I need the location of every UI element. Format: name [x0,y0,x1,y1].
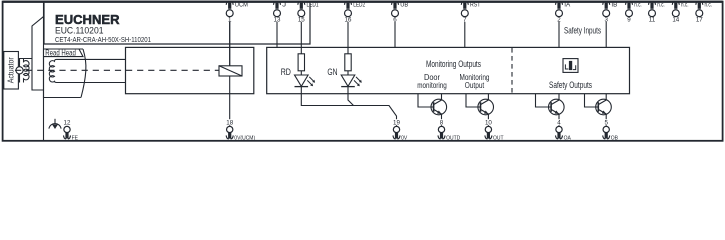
transistor Q2 monitoring output base supply wire [466,94,478,107]
pin number 4 (bottom) [554,119,564,125]
svg-text:Monitoring Outputs: Monitoring Outputs [426,59,481,70]
svg-text:17: 17 [696,16,703,23]
svg-text:n.c.: n.c. [657,2,665,9]
wire resistor to LED RD [300,71,302,75]
svg-text:4: 4 [557,120,561,127]
pin number 18 (bottom) [225,119,235,125]
transistor Q1 door monitoring output base supply wire [418,94,431,107]
logo panel [3,1,723,44]
svg-text:OA: OA [564,135,572,141]
svg-text:8: 8 [440,120,444,127]
svg-text:monitoring: monitoring [417,80,447,90]
terminal pin 11 circle [649,10,656,17]
LED GN cathode bar [341,86,355,88]
terminal pin 10 circle (bottom) [485,126,491,132]
transistor Q4 safety output B base supply wire [585,94,596,107]
svg-text:18: 18 [226,120,233,127]
svg-text:Output: Output [465,80,485,90]
svg-text:0V(UCM): 0V(UCM) [234,135,255,141]
svg-text:GN: GN [327,67,337,78]
svg-text:LED1: LED1 [307,2,319,9]
svg-text:Read Head: Read Head [45,48,76,57]
svg-text:Safety Outputs: Safety Outputs [549,80,592,91]
wire from pin 1 [229,22,231,66]
wire from pin 6 [394,22,396,48]
evaluation unit box (left) [126,47,254,93]
terminal pin 6 (UB) top plug [392,1,399,8]
svg-text:J: J [282,2,286,9]
read head coil L2 [49,59,56,82]
terminal pin 5 (OB) bottom plug [603,132,610,139]
terminal pin 10 (OUT) bottom plug [485,132,492,139]
wire pin1 to solenoid [229,22,231,66]
terminal pin 17 circle [696,10,703,17]
terminal pin 18 circle (bottom) [227,126,233,132]
actuator transponder circle [16,67,23,74]
resistor for LED GN [345,54,351,71]
terminal pin 16 circle [345,10,352,17]
terminal pin 7 (RST) top plug [461,1,468,8]
outer drawing frame [3,2,723,141]
LED GN emission arrows [354,77,362,86]
terminal pin 11 (n.c.) top plug [649,1,656,8]
terminal pin 9 (n.c.) top plug [626,1,633,8]
transistor Q4 safety output B [596,94,612,127]
terminal pin 17 (n.c.) top plug [696,1,703,8]
LED GN diode triangle [341,75,355,86]
main electronics box [267,47,630,93]
mechanical coupling dashed line [15,69,219,71]
LED RD emission arrows [307,77,315,86]
terminal pin 9 circle [626,10,633,17]
terminal pin 3 circle [603,10,610,17]
svg-text:CET4-AR-CRA-AH-50X-SH-110201: CET4-AR-CRA-AH-50X-SH-110201 [55,35,151,44]
read head label tab [44,49,84,57]
wire from pin 15 [300,22,302,54]
wire: jog from FE rail to actuator loop [32,17,44,59]
read head cable wires to evaluation unit [57,58,126,60]
terminal pin 16 (LED2) top plug [345,1,352,8]
svg-text:11: 11 [649,16,656,23]
guard lock solenoid Y1 [219,66,242,76]
terminal pin 1 (UCM) top plug [226,1,233,8]
LED cathode rail to pin 19 [301,87,396,127]
svg-text:IA: IA [564,2,570,9]
svg-text:9: 9 [627,16,631,23]
svg-text:Safety Inputs: Safety Inputs [564,25,601,36]
pin number 8 (bottom) [437,119,447,125]
svg-text:n.c.: n.c. [705,2,713,9]
svg-text:10: 10 [485,120,492,127]
pin number 10 (bottom) [483,119,493,125]
svg-text:n.c.: n.c. [634,2,642,9]
pin number 5 (bottom) [601,119,611,125]
wire from pin 2 [558,22,560,48]
terminal pin 2 circle [556,10,563,17]
wire from pin 16 [347,22,349,54]
svg-text:12: 12 [64,120,71,127]
svg-text:IB: IB [611,2,617,9]
wire: FE rail from top frame to bottom frame (x=43.5) [43,3,45,140]
resistor for LED RD [298,54,304,71]
LED RD diode triangle [295,75,309,86]
svg-text:Actuator: Actuator [6,57,15,83]
wire from pin 3 [605,22,607,48]
LED RD cathode bar [295,86,309,88]
wire solenoid to pin18 [229,76,231,126]
read head box with break edge [44,49,86,98]
terminal pin 19 circle (bottom) [393,126,399,132]
terminal pin 3 (IB) top plug [603,1,610,8]
terminal pin 13 circle [274,10,281,17]
terminal pin 19 (0V) bottom plug [393,132,400,139]
terminal pin 15 (LED1) top plug [298,1,305,8]
terminal pin 7 circle [461,10,468,17]
wire from pin 7 [464,22,466,48]
terminal pin 13 (J) top plug [274,1,281,8]
svg-text:0V: 0V [401,135,408,141]
transistor Q1 door monitoring output [431,94,447,127]
actuator coil loop wiring [20,59,44,91]
pin number 19 (bottom) [392,119,402,125]
terminal pin 2 (IA) top plug [556,1,563,8]
transistor Q3 safety output A [549,94,565,127]
terminal pin 4 circle (bottom) [556,126,562,132]
svg-text:5: 5 [604,120,608,127]
terminal pin 5 circle (bottom) [603,126,609,132]
functional earth symbol [49,119,61,129]
svg-text:OUTD: OUTD [446,135,461,141]
svg-text:14: 14 [672,16,679,23]
terminal pin 6 circle [392,10,399,17]
transistor Q2 monitoring output [478,94,494,127]
svg-text:UB: UB [400,2,408,9]
wire resistor to LED GN [347,71,349,75]
actuator coil L1 [24,59,30,83]
svg-text:OB: OB [611,135,619,141]
wire from pin 13 [276,22,278,48]
svg-text:n.c.: n.c. [681,2,689,9]
svg-text:UCM: UCM [235,2,248,9]
pin number 12 (bottom) [62,119,72,125]
terminal pin 18 (0V(UCM)) bottom plug [226,132,233,139]
svg-text:FE: FE [72,135,79,141]
svg-text:RD: RD [281,67,291,78]
terminal pin 4 (OA) bottom plug [556,132,563,139]
terminal pin 8 (OUTD) bottom plug [438,132,445,139]
terminal pin 12 circle (bottom) [64,126,70,132]
terminal pin 15 circle [298,10,305,17]
terminal pin 12 (FE) bottom plug [64,132,71,139]
actuator box [4,52,19,90]
svg-text:LED2: LED2 [353,2,365,9]
terminal pin 8 circle (bottom) [438,126,444,132]
transistor Q3 safety output A base supply wire [536,94,549,107]
svg-text:OUT: OUT [493,135,504,141]
terminal pin 1 circle [226,10,233,17]
terminal pin 14 circle [672,10,679,17]
terminal pin 14 (n.c.) top plug [672,1,679,8]
svg-text:19: 19 [393,120,400,127]
svg-text:RST: RST [470,2,481,9]
dashed divider [511,48,513,93]
safety logic icon [563,59,578,73]
